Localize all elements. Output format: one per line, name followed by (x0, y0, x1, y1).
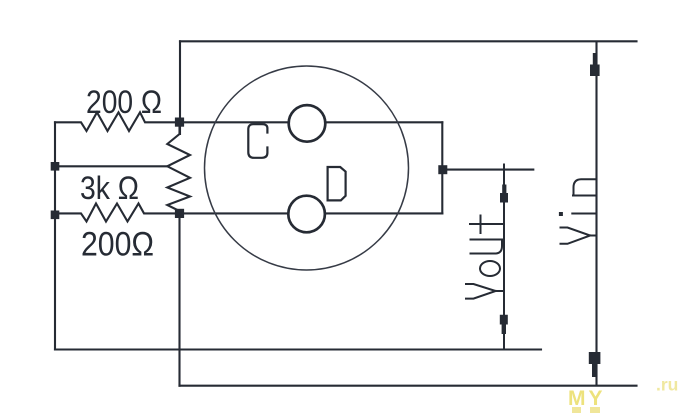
junction dot left lower (51, 211, 60, 220)
label Vout letter V (466, 284, 504, 299)
label Vin letter n (573, 179, 597, 195)
label Vin letter i dot (559, 212, 563, 216)
label Vin letter i (572, 213, 596, 215)
junction dot left middle (51, 162, 60, 171)
electrode D circle (288, 196, 325, 233)
junction dot output node (438, 165, 447, 174)
Vout arrowhead up (500, 185, 508, 203)
wire left vertical of loop (lower segment) (178, 211, 180, 386)
resistor R1 200ohm top zigzag (55, 112, 180, 131)
label C (248, 124, 267, 158)
resistor R3 200ohm bottom zigzag (55, 204, 180, 222)
watermark lower remnants (572, 407, 581, 413)
Vin dimension line (595, 41, 597, 385)
electrode C circle (289, 105, 326, 142)
wire top line of loop (180, 40, 637, 42)
label Vout letter o (480, 261, 500, 276)
label D (328, 167, 346, 200)
tube envelope (205, 66, 409, 270)
wire middle tap (55, 165, 168, 167)
svg-text:200 Ω: 200 Ω (86, 84, 162, 120)
svg-text:3k Ω: 3k Ω (80, 170, 139, 206)
Vout arrowhead down (500, 315, 508, 334)
Vin arrowhead down (589, 352, 601, 377)
svg-text:.ru: .ru (656, 375, 678, 395)
wire bottom return (55, 348, 541, 350)
label Vout letter t (470, 216, 504, 234)
wire anode C row right (327, 121, 443, 123)
wire right vertical join (441, 122, 443, 213)
label Vout letter u (471, 240, 505, 254)
wire bottom line of loop (180, 385, 637, 387)
svg-text:MY: MY (568, 387, 606, 410)
svg-text:200Ω: 200Ω (81, 226, 154, 264)
wire output tap (442, 169, 533, 171)
wire left vertical of loop (upper segment) (179, 41, 181, 134)
resistor R2 3kohm vertical zigzag (167, 122, 190, 214)
label Vin letter V (561, 228, 597, 244)
wire anode C row (180, 121, 288, 123)
Vout dimension line (503, 164, 505, 350)
wire cathode D row right (327, 212, 443, 214)
wire cathode D row (180, 212, 288, 214)
Vin arrowhead up (590, 53, 600, 76)
junction dot top resistor node (175, 118, 184, 127)
junction dot bottom resistor node (175, 209, 184, 218)
wire left rail (54, 122, 56, 349)
